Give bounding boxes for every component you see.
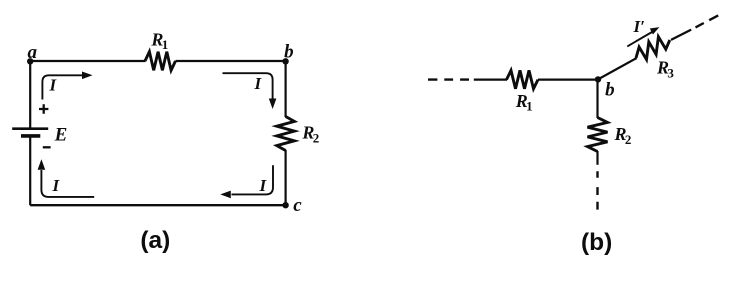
svg-text:I′: I′ — [633, 17, 645, 36]
resistor R1 (circuit b) — [507, 70, 539, 113]
wire: (a) right wire R2 to c — [285, 150, 287, 205]
wire: (b) diagonal node b to R3 — [598, 58, 637, 79]
node b (circuit a) — [282, 41, 293, 64]
battery minus polarity mark — [43, 146, 51, 148]
wire: (a) left wire bottom (battery to bottom rail) — [29, 136, 31, 205]
current arrow I (top right) — [223, 73, 277, 109]
node b (circuit b) — [595, 76, 615, 100]
wire: (a) top wire left segment a to R1 — [30, 60, 145, 62]
wire: (b) dashed lead-in left — [428, 78, 469, 80]
current arrow I (bottom right) — [220, 165, 273, 198]
current arrow I (bottom left) — [38, 159, 95, 197]
current arrow I' (circuit b) — [627, 17, 659, 46]
current arrow I (top left) — [42, 72, 92, 100]
resistor R2 (circuit b) — [588, 118, 632, 152]
wire: (b) R2 down to dashed — [596, 151, 598, 165]
wire: (b) dashed stub upper right — [696, 15, 719, 27]
wire: (a) right wire b to R2 — [285, 61, 287, 117]
wire: (a) left wire top (a to battery) — [29, 61, 31, 129]
svg-text:a: a — [28, 42, 38, 63]
wire: (a) top wire right segment R1 to b — [176, 60, 286, 62]
node c — [282, 195, 302, 216]
svg-text:c: c — [293, 195, 302, 216]
wire: (b) solid lead to R1 — [474, 78, 507, 80]
resistor R2 (circuit a) — [277, 117, 319, 151]
wire: (b) R1 to node b — [538, 78, 598, 80]
battery E — [12, 124, 67, 145]
wire: (b) node b down to R2 — [596, 79, 598, 118]
svg-text:b: b — [605, 79, 615, 100]
wire: (b) dashed stub downward — [596, 171, 598, 209]
svg-text:b: b — [284, 41, 294, 62]
svg-text:(b): (b) — [581, 229, 612, 256]
wire: (a) bottom wire c to battery — [30, 204, 285, 206]
svg-text:(a): (a) — [140, 227, 170, 254]
resistor R3 (circuit b) — [636, 37, 674, 81]
resistor R1 (circuit a) — [145, 29, 176, 70]
wire: (b) diagonal R3 to dashed — [671, 30, 691, 40]
battery plus polarity mark — [39, 104, 48, 113]
node a — [27, 42, 38, 65]
svg-text:E: E — [54, 124, 68, 145]
